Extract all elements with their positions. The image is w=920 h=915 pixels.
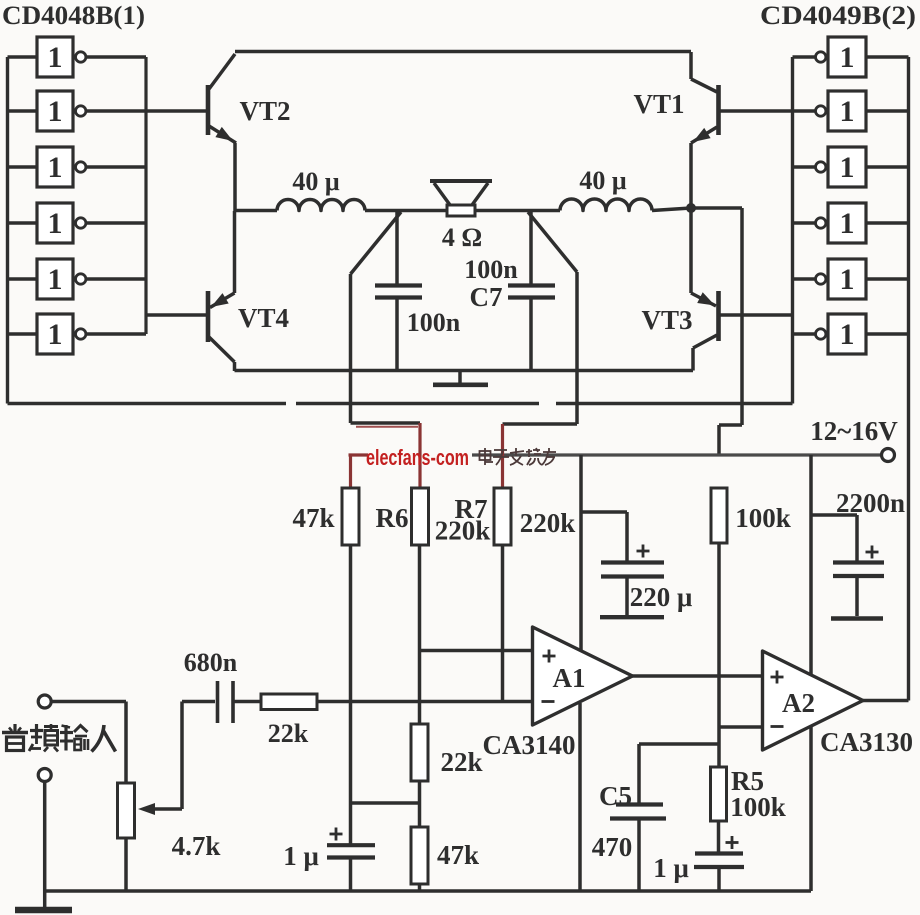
svg-text:47k: 47k [292, 503, 334, 533]
svg-text:100k: 100k [730, 792, 786, 822]
svg-text:220 μ: 220 μ [630, 582, 693, 612]
svg-text:470: 470 [592, 832, 633, 862]
svg-text:1 μ: 1 μ [283, 841, 319, 871]
svg-text:CD4048B(1): CD4048B(1) [2, 1, 145, 30]
svg-text:4.7k: 4.7k [172, 831, 221, 861]
svg-text:1: 1 [840, 151, 855, 184]
svg-text:2200n: 2200n [836, 488, 905, 518]
svg-text:R6: R6 [376, 503, 409, 533]
svg-text:elecfans-com: elecfans-com [366, 445, 469, 470]
svg-text:VT4: VT4 [238, 303, 289, 333]
svg-text:220k: 220k [520, 508, 576, 538]
svg-text:1: 1 [840, 263, 855, 296]
svg-text:100n: 100n [407, 308, 461, 337]
svg-text:1: 1 [48, 41, 63, 74]
svg-text:1 μ: 1 μ [653, 853, 689, 883]
svg-text:22k: 22k [268, 719, 309, 748]
svg-text:A2: A2 [782, 688, 815, 718]
svg-text:680n: 680n [184, 648, 238, 677]
svg-text:12~16V: 12~16V [810, 416, 898, 446]
svg-text:22k: 22k [440, 747, 482, 777]
svg-text:4 Ω: 4 Ω [442, 223, 482, 252]
svg-text:VT2: VT2 [239, 96, 290, 126]
svg-text:1: 1 [48, 95, 63, 128]
svg-text:47k: 47k [437, 840, 479, 870]
svg-text:VT3: VT3 [641, 305, 692, 335]
svg-text:CA3140: CA3140 [483, 730, 576, 760]
svg-text:1: 1 [48, 263, 63, 296]
svg-text:1: 1 [840, 95, 855, 128]
svg-text:A1: A1 [553, 663, 586, 693]
svg-text:100n: 100n [464, 255, 518, 284]
svg-text:1: 1 [48, 151, 63, 184]
svg-text:220k: 220k [435, 516, 491, 546]
svg-text:1: 1 [840, 41, 855, 74]
svg-text:VT1: VT1 [633, 89, 684, 119]
svg-text:1: 1 [48, 207, 63, 240]
svg-text:40 μ: 40 μ [292, 167, 340, 196]
svg-text:C5: C5 [599, 781, 632, 811]
svg-text:1: 1 [48, 318, 63, 351]
svg-text:100k: 100k [735, 503, 791, 533]
svg-text:1: 1 [840, 207, 855, 240]
svg-text:C7: C7 [470, 282, 503, 312]
svg-text:1: 1 [840, 318, 855, 351]
svg-text:CD4049B(2): CD4049B(2) [760, 1, 916, 30]
svg-text:40 μ: 40 μ [579, 166, 627, 195]
svg-text:CA3130: CA3130 [820, 727, 913, 757]
